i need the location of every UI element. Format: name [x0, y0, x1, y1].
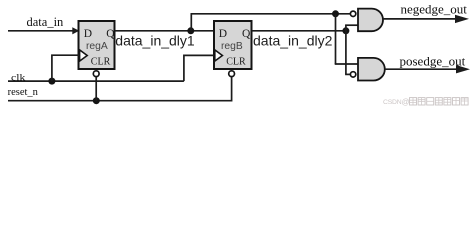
- node reset junction dot: [93, 97, 100, 104]
- arrowhead posedge_out: [456, 65, 470, 73]
- wire clk branch to regA clock: [52, 55, 79, 81]
- clock triangle regB: [215, 50, 223, 61]
- inverter bubble on G2 bottom input: [350, 72, 355, 77]
- wire reset_n horizontal: [8, 100, 232, 102]
- wire regA.Q to regB.D: [115, 30, 214, 32]
- wire regB.Q to right: [252, 30, 346, 32]
- flip-flop U2 regB box: [214, 21, 252, 69]
- svg-text:CSDN: CSDN: [383, 99, 402, 106]
- inverter bubble on G1 top input: [350, 11, 355, 16]
- wire posedge top input: [335, 63, 359, 65]
- wire into posedge bubble: [345, 73, 350, 75]
- watermark CSDN: [383, 97, 468, 106]
- node dly1 junction dot: [187, 27, 194, 34]
- wire reset branch to regA CLR bubble: [95, 77, 97, 101]
- wire dly1 top bypass: [191, 13, 351, 15]
- svg-text:D: D: [84, 28, 92, 40]
- svg-text:data_in_dly2: data_in_dly2: [253, 33, 333, 49]
- svg-text:posedge_out: posedge_out: [400, 54, 466, 69]
- wire posedge output: [385, 68, 458, 70]
- and-gate G2 (posedge): [358, 58, 385, 81]
- svg-text:@: @: [402, 97, 410, 106]
- svg-text:CLR: CLR: [226, 57, 246, 68]
- CLR bubble regB: [229, 71, 235, 77]
- svg-text:regA: regA: [86, 41, 108, 52]
- and-gate G1 (negedge): [358, 9, 383, 32]
- svg-text:negedge_out: negedge_out: [401, 2, 468, 17]
- svg-text:Q: Q: [106, 28, 115, 40]
- flip-flop U1 regA box: [79, 21, 115, 69]
- node clk junction dot: [48, 78, 55, 85]
- wire data_in: [8, 30, 74, 32]
- svg-text:reset_n: reset_n: [8, 87, 39, 98]
- wire negedge output: [383, 18, 456, 20]
- svg-text:clk: clk: [11, 73, 26, 83]
- wire clk branch to regB clock: [184, 55, 214, 81]
- clock triangle regA: [80, 50, 88, 61]
- wire clk horizontal: [8, 80, 184, 82]
- svg-text:D: D: [219, 28, 227, 40]
- watermark CJK glyph blocks: [410, 98, 469, 105]
- svg-text:data_in_dly1: data_in_dly1: [115, 33, 195, 49]
- wire vertical B (dly2 up to negedge, down to posedge bubble): [345, 25, 347, 74]
- svg-text:Q: Q: [242, 28, 251, 40]
- arrowhead negedge_out: [455, 15, 469, 23]
- wire dly1 vertical up: [190, 14, 192, 31]
- svg-text:data_in: data_in: [27, 15, 65, 29]
- svg-text:regB: regB: [221, 41, 243, 52]
- arrowhead into regA D: [72, 27, 79, 34]
- CLR bubble regA: [93, 71, 99, 77]
- node dly2 junction dot: [342, 27, 349, 34]
- svg-text:CLR: CLR: [91, 57, 111, 68]
- node dot on top bypass: [332, 10, 339, 17]
- wire vertical A (dly1 down to posedge): [335, 14, 337, 64]
- wire reset branch to regB CLR bubble: [231, 77, 233, 102]
- wire negedge bottom input: [345, 24, 358, 26]
